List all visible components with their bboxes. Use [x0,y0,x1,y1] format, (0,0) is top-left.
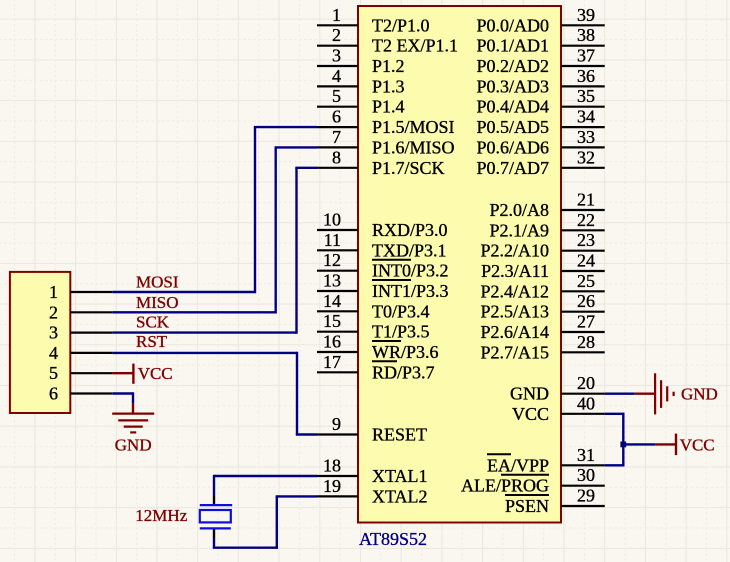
svg-text:2: 2 [332,25,341,45]
pin 8 P1.7/SCK [317,147,445,178]
svg-text:P0.2/AD2: P0.2/AD2 [476,56,549,76]
svg-text:P1.3: P1.3 [372,76,405,96]
pin 3 P1.2 [317,46,405,77]
svg-text:TXD/P3.1: TXD/P3.1 [372,240,447,260]
pin 32 P0.7/AD7 [476,147,604,178]
svg-text:P0.3/AD3: P0.3/AD3 [476,76,549,96]
pin 19 XTAL2 [317,476,428,507]
wire junction to VCC bar [623,443,676,445]
svg-text:P2.3/A11: P2.3/A11 [481,261,549,281]
svg-text:P0.7/AD7: P0.7/AD7 [476,158,549,178]
svg-text:25: 25 [577,271,595,291]
pin 15 T1/P3.5 [317,311,430,342]
wire connector pin5 to VCC bar [113,372,134,374]
svg-text:P1.7/SCK: P1.7/SCK [372,158,445,178]
svg-text:1: 1 [332,5,341,25]
svg-text:35: 35 [577,86,595,106]
pin 23 P2.2/A10 [480,230,604,261]
svg-text:P0.6/AD6: P0.6/AD6 [476,137,549,157]
svg-text:6: 6 [49,384,58,404]
pin 18 XTAL1 [317,456,428,487]
svg-text:GND: GND [681,385,718,404]
svg-text:13: 13 [323,271,341,291]
svg-text:21: 21 [577,190,595,210]
connector J1 pin 2 [49,302,113,322]
svg-text:P1.5/MOSI: P1.5/MOSI [372,117,455,137]
svg-text:VCC: VCC [512,404,549,424]
connector J1 pin 4 [49,343,113,363]
pin 10 RXD/P3.0 [317,210,448,241]
pin 29 PSEN [505,486,605,517]
svg-text:INT1/P3.3: INT1/P3.3 [372,281,449,301]
power symbol VCC (pins 40/31) [676,434,715,456]
pin 30 ALE/PROG [461,465,605,496]
svg-text:P1.2: P1.2 [372,56,405,76]
pin 22 P2.1/A9 [489,210,604,241]
svg-text:16: 16 [323,332,341,352]
svg-text:T1/P3.5: T1/P3.5 [372,322,430,342]
wire RST net: connector pin4 to RESET pin9 [113,352,317,435]
svg-text:34: 34 [577,107,595,127]
connector J1 pin 5 [49,363,113,383]
svg-text:5: 5 [332,86,341,106]
connector J1 pin 6 [49,384,113,404]
svg-text:24: 24 [577,251,595,271]
svg-text:40: 40 [577,393,595,413]
svg-text:SCK: SCK [136,313,170,332]
svg-text:WR/P3.6: WR/P3.6 [372,342,439,362]
svg-text:12MHz: 12MHz [135,506,187,525]
svg-text:7: 7 [332,127,341,147]
svg-text:T2/P1.0: T2/P1.0 [372,15,430,35]
pin 20 GND [510,373,605,404]
power symbol VCC (connector pin5) [133,364,172,384]
pin 21 P2.0/A8 [489,190,604,221]
svg-text:3: 3 [332,46,341,66]
svg-text:26: 26 [577,291,595,311]
pin 31 EA/VPP [487,445,605,476]
pin 14 T0/P3.4 [317,291,430,322]
connector J1 body [10,272,70,413]
svg-text:22: 22 [577,210,595,230]
svg-text:10: 10 [323,210,341,230]
svg-text:14: 14 [323,291,341,311]
svg-text:3: 3 [49,323,58,343]
svg-text:1: 1 [49,282,58,302]
svg-text:P0.1/AD1: P0.1/AD1 [476,36,549,56]
pin 7 P1.6/MISO [317,127,455,158]
wire MOSI net: connector pin1 to P1.5/MOSI [113,127,317,293]
svg-text:23: 23 [577,230,595,250]
svg-text:20: 20 [577,373,595,393]
svg-text:12: 12 [323,250,341,270]
svg-text:MOSI: MOSI [136,273,179,292]
pin 17 RD/P3.7 [317,352,435,383]
svg-text:31: 31 [577,445,595,465]
wire pin20 GND to ground symbol [605,393,655,395]
svg-text:37: 37 [577,46,595,66]
svg-text:P0.4/AD4: P0.4/AD4 [476,97,549,117]
svg-text:PSEN: PSEN [505,496,549,516]
ground symbol GND (pin 20) [655,373,718,414]
svg-text:5: 5 [49,363,58,383]
svg-text:33: 33 [577,127,595,147]
wire crystal bottom to XTAL2 pin19 [213,496,317,549]
svg-text:RXD/P3.0: RXD/P3.0 [372,220,448,240]
svg-text:P2.6/A14: P2.6/A14 [480,322,549,342]
svg-text:18: 18 [323,456,341,476]
svg-text:P2.4/A12: P2.4/A12 [480,281,549,301]
pin 26 P2.5/A13 [480,291,604,322]
pin 37 P0.2/AD2 [476,46,604,77]
pin 40 VCC [512,393,605,424]
svg-text:XTAL1: XTAL1 [372,466,428,486]
svg-text:GND: GND [510,384,549,404]
svg-text:39: 39 [577,5,595,25]
svg-text:VCC: VCC [138,364,173,383]
svg-text:VCC: VCC [680,435,715,454]
junction node on VCC net [620,442,626,448]
svg-text:38: 38 [577,25,595,45]
svg-text:29: 29 [577,486,595,506]
svg-text:17: 17 [323,352,341,372]
svg-text:MISO: MISO [136,293,179,312]
pin 13 INT1/P3.3 [317,271,449,302]
crystal Y1 12MHz [200,505,232,528]
svg-text:9: 9 [332,414,341,434]
svg-text:P1.6/MISO: P1.6/MISO [372,137,455,157]
connector J1 pin 1 [49,282,113,302]
pin 34 P0.5/AD5 [476,107,604,138]
pin 24 P2.3/A11 [481,251,605,282]
svg-text:30: 30 [577,465,595,485]
pin 4 P1.3 [317,66,405,97]
pin 35 P0.4/AD4 [476,86,604,117]
pin 5 P1.4 [317,86,405,117]
pin 28 P2.7/A15 [480,332,604,363]
svg-text:RD/P3.7: RD/P3.7 [372,362,435,382]
pin 38 P0.1/AD1 [476,25,604,56]
pin 27 P2.6/A14 [480,312,604,343]
svg-text:6: 6 [332,107,341,127]
op IC U1 AT89S52 body [358,6,561,523]
svg-text:P2.7/A15: P2.7/A15 [480,342,549,362]
pin 33 P0.6/AD6 [476,127,604,158]
svg-text:RST: RST [136,332,168,351]
svg-text:27: 27 [577,312,595,332]
pin 9 RESET [317,414,427,445]
svg-text:36: 36 [577,66,595,86]
svg-text:32: 32 [577,147,595,167]
ground symbol GND (connector pin6) [112,404,154,455]
svg-text:P2.5/A13: P2.5/A13 [480,302,549,322]
svg-text:28: 28 [577,332,595,352]
wire MISO net: connector pin2 to P1.6/MISO [113,147,317,313]
svg-text:P0.0/AD0: P0.0/AD0 [476,15,549,35]
svg-text:2: 2 [49,302,58,322]
svg-text:GND: GND [115,435,152,454]
svg-text:P2.1/A9: P2.1/A9 [489,220,549,240]
svg-text:P1.4: P1.4 [372,97,405,117]
pin 16 WR/P3.6 [317,332,439,363]
svg-text:ALE/PROG: ALE/PROG [461,476,549,496]
svg-text:19: 19 [323,476,341,496]
pin 36 P0.3/AD3 [476,66,604,97]
pin 6 P1.5/MOSI [317,107,455,138]
svg-text:P2.0/A8: P2.0/A8 [489,200,549,220]
svg-text:EA/VPP: EA/VPP [487,455,549,475]
svg-text:INT0/P3.2: INT0/P3.2 [372,261,449,281]
connector J1 pin 3 [49,323,113,343]
svg-text:4: 4 [49,343,58,363]
pin 1 T2/P1.0 [317,5,430,36]
svg-text:11: 11 [324,230,341,250]
pin 25 P2.4/A12 [480,271,604,302]
wire pin40 VCC down to pin31 EA/VPP [605,413,625,466]
wire SCK net: connector pin3 to P1.7/SCK [113,168,317,334]
wire connector pin6 to GND symbol [113,392,133,404]
svg-text:RESET: RESET [372,425,427,445]
svg-text:XTAL2: XTAL2 [372,486,428,506]
svg-text:4: 4 [332,66,341,86]
pin 11 TXD/P3.1 [317,230,447,260]
svg-text:8: 8 [332,147,341,167]
svg-text:T0/P3.4: T0/P3.4 [372,301,430,321]
svg-text:T2 EX/P1.1: T2 EX/P1.1 [372,36,458,56]
wire XTAL1 pin18 to crystal top [214,475,317,505]
pin 12 INT0/P3.2 [317,250,449,281]
pin 39 P0.0/AD0 [476,5,604,36]
svg-text:P0.5/AD5: P0.5/AD5 [476,117,549,137]
svg-text:15: 15 [323,311,341,331]
pin 2 T2 EX/P1.1 [317,25,458,56]
svg-text:AT89S52: AT89S52 [359,529,427,549]
svg-text:P2.2/A10: P2.2/A10 [480,241,549,261]
